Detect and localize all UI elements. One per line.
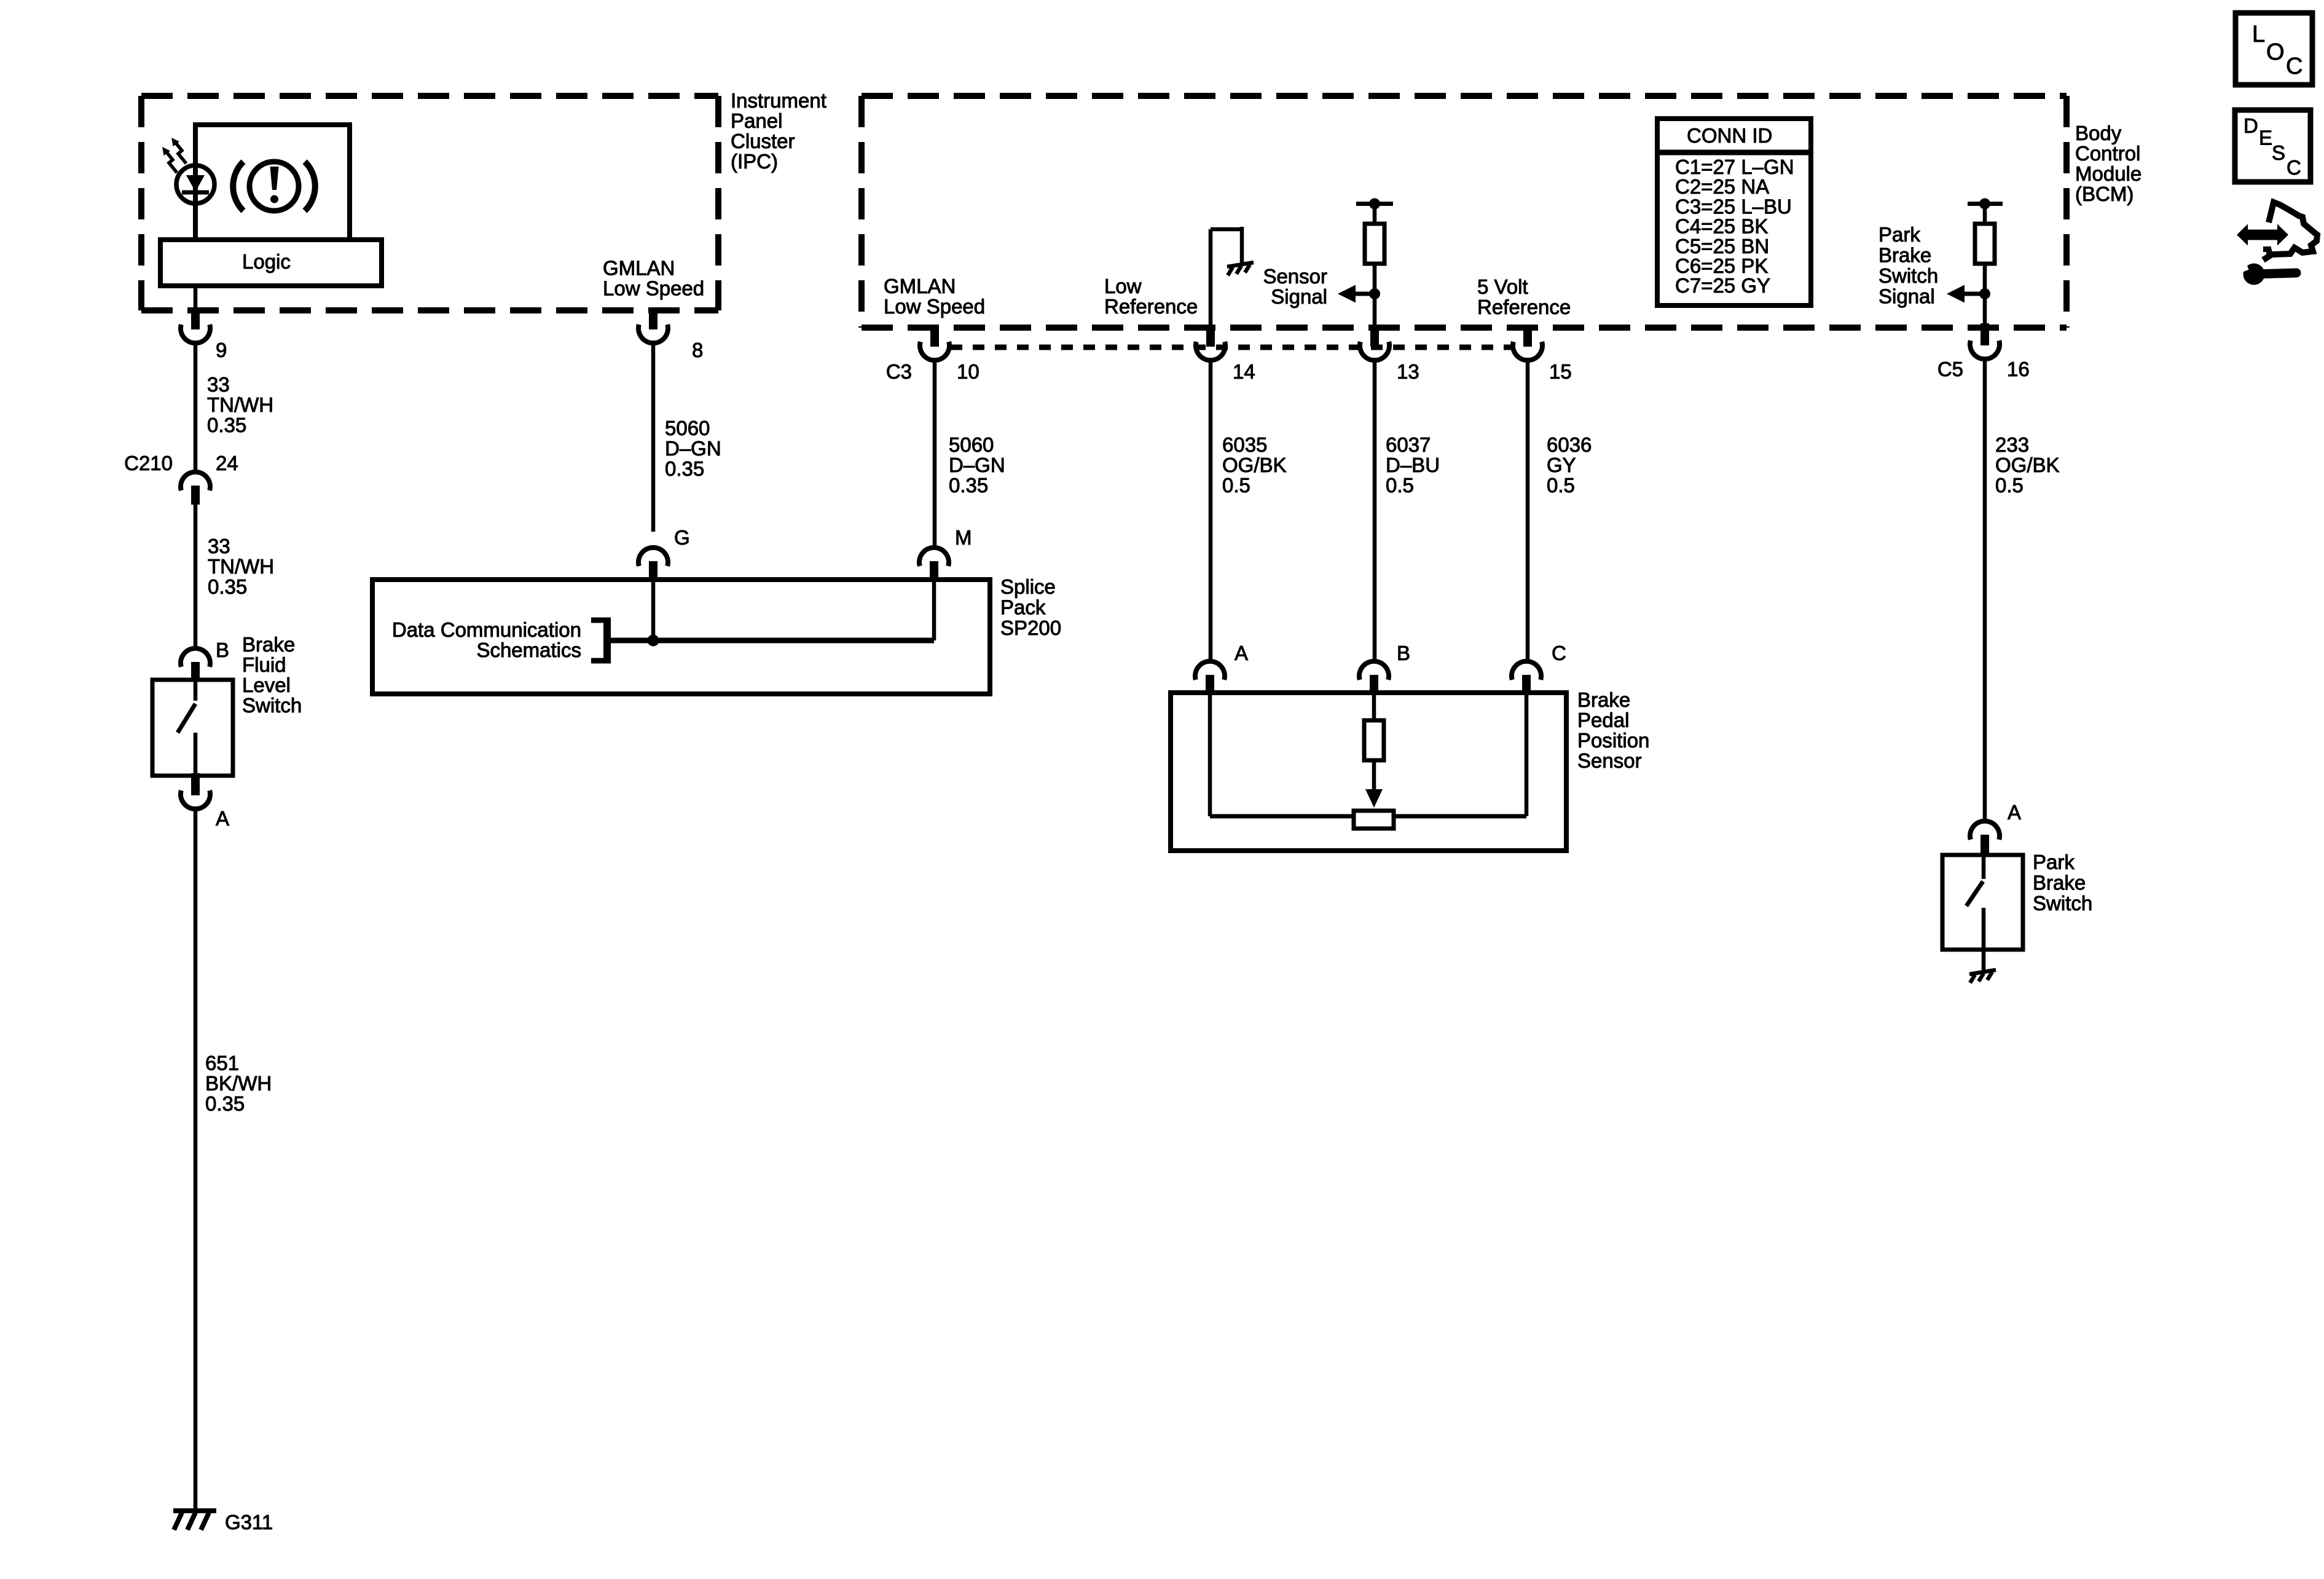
svg-text:M: M	[955, 526, 972, 549]
svg-text:A: A	[216, 807, 229, 830]
svg-text:Body: Body	[2075, 122, 2122, 144]
svg-text:Reference: Reference	[1104, 295, 1198, 318]
svg-text:651: 651	[205, 1052, 239, 1074]
svg-text:Park: Park	[1878, 223, 1920, 246]
svg-text:E: E	[2259, 127, 2272, 149]
svg-text:Schematics: Schematics	[476, 639, 581, 661]
svg-text:C3: C3	[886, 360, 912, 383]
svg-text:10: 10	[957, 360, 979, 383]
svg-text:GY: GY	[1547, 454, 1576, 476]
svg-text:D–GN: D–GN	[665, 437, 721, 460]
svg-text:5060: 5060	[949, 433, 994, 456]
svg-text:C210: C210	[124, 452, 173, 474]
svg-text:Control: Control	[2075, 142, 2140, 165]
svg-text:O: O	[2266, 39, 2285, 65]
svg-text:Panel: Panel	[731, 109, 782, 132]
svg-text:Brake: Brake	[2033, 872, 2086, 894]
svg-text:C: C	[2286, 53, 2302, 79]
svg-text:Switch: Switch	[1878, 264, 1938, 287]
svg-text:Logic: Logic	[242, 250, 291, 273]
svg-text:0.5: 0.5	[1222, 474, 1250, 497]
svg-text:S: S	[2272, 141, 2285, 164]
svg-text:Pack: Pack	[1000, 596, 1046, 619]
svg-text:5 Volt: 5 Volt	[1477, 275, 1528, 298]
svg-text:0.5: 0.5	[1995, 474, 2024, 497]
svg-text:L: L	[2252, 22, 2265, 47]
svg-text:Brake: Brake	[1577, 688, 1630, 711]
svg-text:0.35: 0.35	[208, 575, 247, 598]
svg-text:33: 33	[208, 535, 230, 557]
svg-text:14: 14	[1233, 360, 1255, 383]
svg-text:TN/WH: TN/WH	[208, 555, 274, 578]
svg-text:B: B	[216, 639, 229, 661]
svg-text:Low: Low	[1104, 275, 1142, 297]
svg-text:0.5: 0.5	[1386, 474, 1414, 497]
svg-text:0.35: 0.35	[207, 414, 246, 436]
svg-text:Switch: Switch	[2033, 892, 2092, 915]
svg-text:(IPC): (IPC)	[731, 150, 778, 173]
svg-text:Sensor: Sensor	[1263, 265, 1327, 288]
svg-text:Park: Park	[2033, 851, 2075, 873]
svg-text:G: G	[674, 526, 690, 549]
svg-text:Data Communication: Data Communication	[392, 618, 581, 641]
svg-text:Signal: Signal	[1271, 285, 1327, 308]
svg-text:24: 24	[216, 452, 238, 474]
svg-text:Position: Position	[1577, 729, 1649, 752]
svg-text:C5: C5	[1937, 358, 1963, 380]
svg-text:0.35: 0.35	[665, 457, 704, 480]
svg-text:C7=25 GY: C7=25 GY	[1675, 274, 1770, 297]
svg-text:15: 15	[1549, 360, 1572, 383]
svg-text:0.35: 0.35	[949, 474, 988, 497]
svg-text:0.35: 0.35	[205, 1092, 245, 1115]
svg-text:Level: Level	[242, 674, 291, 696]
svg-text:5060: 5060	[665, 417, 710, 439]
svg-text:Switch: Switch	[242, 694, 302, 717]
svg-text:16: 16	[2007, 358, 2030, 380]
svg-text:Fluid: Fluid	[242, 653, 286, 676]
svg-text:Brake: Brake	[242, 633, 295, 656]
svg-text:9: 9	[216, 339, 227, 361]
svg-text:Signal: Signal	[1878, 285, 1935, 308]
svg-text:Splice: Splice	[1000, 575, 1056, 598]
svg-text:A: A	[1235, 642, 1248, 664]
svg-text:SP200: SP200	[1000, 616, 1061, 639]
svg-text:6036: 6036	[1547, 433, 1592, 456]
svg-text:OG/BK: OG/BK	[1222, 454, 1287, 476]
svg-text:B: B	[1397, 642, 1410, 664]
svg-text:GMLAN: GMLAN	[603, 257, 675, 280]
svg-text:C: C	[2287, 156, 2301, 179]
svg-text:G311: G311	[225, 1511, 273, 1534]
svg-text:OG/BK: OG/BK	[1995, 454, 2060, 476]
svg-text:6035: 6035	[1222, 433, 1267, 456]
svg-text:Sensor: Sensor	[1577, 749, 1642, 772]
svg-text:C: C	[1552, 642, 1566, 664]
svg-text:A: A	[2008, 801, 2021, 824]
svg-text:D: D	[2244, 114, 2258, 137]
svg-text:13: 13	[1397, 360, 1419, 383]
svg-text:TN/WH: TN/WH	[207, 393, 273, 416]
svg-text:D–GN: D–GN	[949, 454, 1005, 476]
svg-text:CONN ID: CONN ID	[1687, 124, 1772, 147]
svg-text:Instrument: Instrument	[731, 89, 826, 112]
svg-text:Pedal: Pedal	[1577, 709, 1629, 731]
svg-text:233: 233	[1995, 433, 2029, 456]
svg-text:8: 8	[692, 339, 703, 361]
svg-text:GMLAN: GMLAN	[884, 275, 956, 297]
svg-text:(BCM): (BCM)	[2075, 183, 2134, 205]
svg-text:6037: 6037	[1386, 433, 1431, 456]
svg-text:Brake: Brake	[1878, 244, 1931, 267]
svg-text:Low Speed: Low Speed	[884, 295, 985, 318]
svg-text:Cluster: Cluster	[731, 130, 795, 152]
svg-text:Reference: Reference	[1477, 296, 1571, 318]
svg-text:Module: Module	[2075, 162, 2141, 185]
svg-text:Low Speed: Low Speed	[603, 277, 704, 300]
svg-text:0.5: 0.5	[1547, 474, 1575, 497]
svg-text:33: 33	[207, 373, 230, 396]
svg-text:D–BU: D–BU	[1386, 454, 1440, 476]
svg-text:BK/WH: BK/WH	[205, 1072, 272, 1095]
